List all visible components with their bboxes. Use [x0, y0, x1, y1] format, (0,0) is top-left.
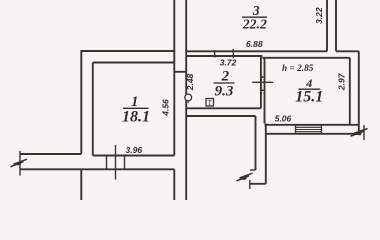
- corridor door tick: [249, 180, 251, 189]
- wall: room4 bottom outer: [266, 133, 360, 135]
- wall: room1 floor inner: [93, 155, 175, 157]
- svg-text:3.72: 3.72: [220, 58, 237, 68]
- window in bottom-left wall: center mullion line: [115, 145, 117, 180]
- svg-text:2: 2: [221, 69, 230, 85]
- balcony window hatch rect in room4 bottom wall: [296, 125, 322, 134]
- svg-text:h = 2.85: h = 2.85: [282, 64, 314, 74]
- corridor door foot: [250, 169, 256, 171]
- dim tick 3.72 left: [214, 50, 216, 58]
- svg-text:18.1: 18.1: [122, 108, 150, 125]
- wall cap jog between rooms 1 and 2: [174, 71, 186, 73]
- wall: room3 right inner line: [326, 0, 328, 51]
- corridor break zigzag arrow: [240, 173, 253, 178]
- wall: room4 bottom inner: [265, 124, 359, 126]
- wall: room2 bottom outer: [186, 115, 255, 117]
- wall below room1 going off bottom edge: [80, 169, 82, 200]
- svg-text:2.97: 2.97: [336, 72, 346, 91]
- svg-text:4.56: 4.56: [160, 99, 170, 117]
- wall: room3 right outer line: [335, 0, 337, 51]
- room2 label: [214, 69, 235, 100]
- partition rooms2-4 left line upper: [260, 56, 262, 108]
- wall: room1 top outer: [81, 50, 175, 52]
- wall: rooms2-3 top line: [186, 50, 327, 52]
- corridor bottom cap: [249, 183, 266, 185]
- svg-text:T: T: [208, 99, 213, 107]
- corridor right wall upper segment: [255, 116, 257, 170]
- svg-text:3.96: 3.96: [126, 145, 143, 155]
- svg-text:15.1: 15.1: [295, 89, 323, 106]
- room1 label: [122, 94, 150, 125]
- room3 label: [242, 3, 267, 32]
- wall: bottom-left outer top line: [20, 153, 81, 155]
- wall: room1 left outer: [80, 51, 82, 154]
- wall break tick bottom right: [363, 125, 365, 140]
- svg-text:6.88: 6.88: [246, 39, 263, 49]
- wall: room1 top inner: [93, 62, 175, 64]
- svg-text:3.22: 3.22: [314, 7, 324, 24]
- wall: bottom-left outer bottom line: [20, 168, 174, 170]
- svg-text:2.48: 2.48: [185, 73, 195, 91]
- svg-text:22.2: 22.2: [242, 17, 267, 32]
- door bar upper in partition: [260, 76, 266, 78]
- door bar lower in partition: [260, 89, 266, 91]
- svg-text:3: 3: [252, 3, 260, 18]
- corridor left wall lower segment: [173, 169, 175, 200]
- wall: right outer vertical: [358, 51, 360, 132]
- wall: top right outer: [336, 50, 359, 52]
- door threshold line across partition: [252, 81, 273, 83]
- wall: room4 right inner: [349, 58, 351, 125]
- window in bottom-left wall: tick 1: [106, 155, 108, 170]
- wall break zigzag arrow bottom right: [354, 129, 368, 134]
- wall break tick left: [19, 151, 21, 176]
- wall: room2 bottom inner: [186, 107, 261, 109]
- wall: room3 left / rooms1-2 partition, left line: [173, 0, 175, 156]
- corridor right wall inner line: [265, 124, 267, 184]
- wall: room3 left / room2 left, right line: [185, 0, 187, 200]
- gas stove circle symbol room2: [185, 94, 192, 101]
- partition rooms2-4 right line upper: [264, 58, 266, 124]
- wall: room1 left inner: [92, 63, 94, 156]
- dim tick 3.72 right: [232, 49, 234, 58]
- svg-text:9.3: 9.3: [215, 84, 234, 100]
- room4 label: [295, 76, 323, 106]
- wall break zigzag arrow left: [14, 159, 28, 164]
- T box symbol room2: [206, 99, 214, 107]
- window in bottom-left wall: tick 2: [124, 155, 126, 170]
- svg-text:5.06: 5.06: [275, 114, 292, 124]
- wall: rooms2-3 bottom line: [186, 55, 262, 57]
- wall: room4 top inner: [262, 57, 349, 59]
